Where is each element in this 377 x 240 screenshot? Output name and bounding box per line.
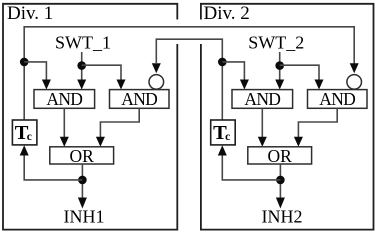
wire: AND2b output to OR2 <box>298 108 337 137</box>
arrowhead to INH2 <box>276 198 285 209</box>
arrowhead into OR1 <box>96 137 105 147</box>
svg-text:OR: OR <box>268 146 293 166</box>
arrowhead into AND2a second input <box>275 80 284 90</box>
wire: SWT_1 signal down <box>81 52 83 80</box>
arrowhead into OR1 <box>60 137 69 147</box>
node junction on OR1 output <box>78 176 87 185</box>
node junction on TC2 line <box>218 58 227 67</box>
gate OR1 <box>50 147 114 164</box>
arrowhead up into Tc2 bottom <box>218 145 227 155</box>
svg-text:INH2: INH2 <box>262 207 303 227</box>
wire: junction to AND1a first input <box>24 62 46 80</box>
svg-text:Div. 1: Div. 1 <box>7 3 53 24</box>
wire: feedback from OR1 junction to Tc1 <box>24 155 82 180</box>
arrowhead into inverter circle of Div.1 AND <box>152 63 161 73</box>
svg-text:SWT_2: SWT_2 <box>248 33 304 53</box>
inverter bubble on Div.2 AND2b <box>347 75 362 90</box>
wire: SWT_2 signal down <box>279 52 281 80</box>
wire: SWT_2 branch to AND2b input <box>280 65 319 80</box>
wire: SWT_1 branch to AND1b input <box>82 65 121 80</box>
svg-text:AND: AND <box>319 89 355 109</box>
wire: Tc2 output across to Div.1 inverter (net TC2) <box>156 39 222 120</box>
gate AND1b <box>110 90 170 109</box>
Division 2 enclosure box <box>201 4 374 230</box>
wire: AND1b output to OR1 <box>100 108 139 137</box>
node junction on SWT_2 line <box>275 61 284 70</box>
node junction on OR2 output <box>276 176 285 185</box>
arrowhead into AND2a <box>240 80 249 90</box>
arrowhead to INH1 <box>78 198 87 209</box>
wire: Tc1 output up and across to Div.2 inverter (net TC1) <box>24 27 354 120</box>
node junction on SWT_1 line <box>77 61 86 70</box>
inverter bubble on Div.1 AND1b <box>149 75 164 90</box>
node junction on TC1 line <box>20 58 29 67</box>
Division 1 enclosure box <box>3 4 177 230</box>
arrowhead into OR2 <box>258 137 267 147</box>
svg-text:INH1: INH1 <box>64 207 105 227</box>
svg-text:c: c <box>27 131 32 143</box>
svg-text:AND: AND <box>121 89 157 109</box>
gate OR2 <box>248 147 312 164</box>
wire: junction to AND2a first input <box>222 62 244 80</box>
arrowhead into AND1a second input <box>77 80 86 90</box>
svg-text:OR: OR <box>70 146 95 166</box>
wire: OR1 output down <box>81 164 83 198</box>
svg-text:AND: AND <box>46 89 82 109</box>
wire: AND2a output to OR2 <box>261 108 263 137</box>
arrowhead into AND1a <box>42 80 51 90</box>
svg-text:c: c <box>225 131 230 143</box>
gate AND2b <box>308 90 368 109</box>
arrowhead into AND2b <box>315 80 324 90</box>
wire: feedback from OR2 junction to Tc2 <box>222 155 280 180</box>
svg-text:Div. 2: Div. 2 <box>204 3 250 24</box>
arrowhead up into Tc1 bottom <box>20 145 29 155</box>
timer box Tc2 <box>211 120 236 145</box>
arrowhead into inverter circle of Div.2 AND <box>350 63 359 73</box>
timer box Tc1 <box>12 120 37 145</box>
gate AND2a <box>232 90 293 109</box>
svg-text:AND: AND <box>244 89 280 109</box>
arrowhead into AND1b <box>117 80 126 90</box>
svg-text:SWT_1: SWT_1 <box>55 33 111 53</box>
wire: OR2 output down <box>279 164 281 198</box>
wire: AND1a output to OR1 <box>63 108 65 137</box>
arrowhead into OR2 <box>294 137 303 147</box>
gate AND1a <box>34 90 95 109</box>
